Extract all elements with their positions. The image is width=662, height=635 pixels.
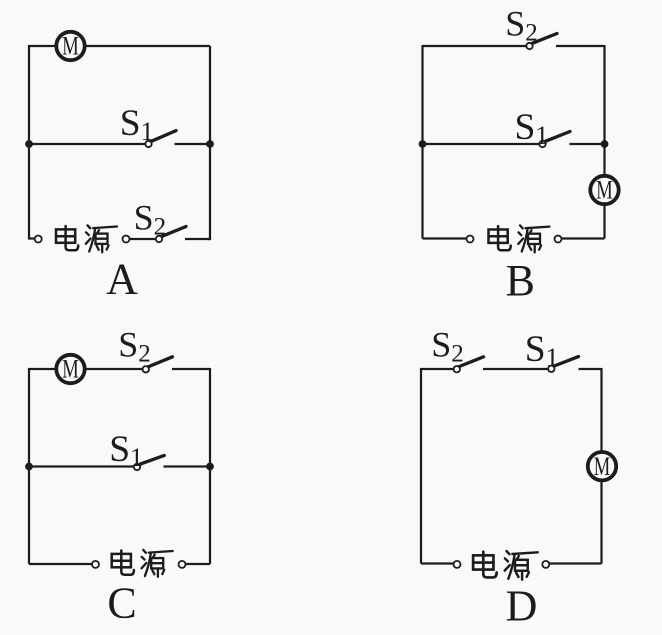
wire A bottom between battery and S2 — [130, 238, 156, 240]
wire B middle right segment — [570, 143, 605, 145]
wire A bottom right segment — [185, 238, 210, 240]
power supply 电源 (circuit D) — [473, 551, 538, 580]
wire C middle right segment — [164, 465, 211, 467]
svg-text:A: A — [106, 255, 138, 304]
switch S2 (circuit C) pivot — [143, 366, 149, 372]
wire B bottom right segment — [562, 237, 605, 239]
wire B bottom left segment — [423, 237, 467, 239]
wire B left vertical — [421, 45, 423, 239]
switch S1 (circuit D) blade — [554, 357, 578, 366]
switch S1 (circuit C) pivot — [134, 464, 140, 470]
wire B top left segment — [423, 45, 527, 47]
svg-text:B: B — [506, 256, 535, 305]
wire C bottom left segment — [29, 563, 92, 565]
node A middle-left junction — [25, 140, 33, 148]
power supply 电源 (circuit B) — [489, 225, 550, 252]
svg-text:S1: S1 — [109, 429, 143, 472]
wire A right vertical — [207, 46, 210, 239]
svg-text:M: M — [62, 355, 79, 384]
wire C top right segment — [172, 368, 210, 370]
wire D top left segment — [421, 368, 453, 370]
battery terminal right (circuit A) — [123, 236, 130, 243]
power supply 电源 (circuit C) — [112, 550, 173, 577]
switch S2 (circuit A) blade — [162, 227, 186, 237]
wire A middle left segment — [29, 143, 145, 145]
motor M (circuit C) — [56, 355, 84, 384]
switch S2 (circuit B) pivot — [526, 43, 532, 49]
battery terminal left (circuit D) — [454, 561, 461, 568]
switch S2 (circuit D) blade — [460, 357, 484, 367]
switch S2 (circuit A) pivot — [156, 236, 162, 242]
battery terminal left (circuit C) — [92, 561, 99, 568]
switch S1 (circuit A) pivot — [145, 141, 151, 147]
svg-text:S1: S1 — [120, 103, 154, 146]
wire C top left stub — [29, 368, 56, 370]
wire B middle left segment — [423, 143, 540, 145]
wire C top middle segment — [85, 368, 142, 370]
motor M (circuit D) — [588, 452, 616, 481]
svg-text:S2: S2 — [431, 325, 464, 368]
battery terminal right (circuit C) — [179, 561, 186, 568]
switch S1 (circuit D) pivot — [548, 366, 554, 372]
switch S2 (circuit C) blade — [149, 357, 173, 367]
wire A top — [29, 45, 210, 47]
wire A left vertical — [29, 45, 35, 239]
switch S1 (circuit B) blade — [545, 132, 570, 142]
wire B top right segment — [556, 45, 605, 47]
svg-text:S1: S1 — [515, 107, 549, 150]
wire A middle right segment — [175, 143, 211, 145]
svg-text:M: M — [594, 452, 611, 481]
svg-text:S2: S2 — [505, 4, 538, 47]
switch S1 (circuit A) blade — [151, 131, 176, 142]
svg-text:C: C — [107, 579, 136, 628]
svg-text:S1: S1 — [525, 329, 559, 372]
svg-text:S2: S2 — [118, 325, 151, 368]
node B middle-left junction — [419, 140, 427, 148]
wire C middle left segment — [29, 465, 134, 467]
wire C left vertical — [28, 368, 30, 564]
wire C bottom right segment — [186, 563, 211, 565]
wire D right vertical — [600, 368, 602, 564]
node C middle-left junction — [25, 463, 33, 471]
svg-text:D: D — [506, 582, 538, 631]
svg-text:S2: S2 — [134, 198, 167, 241]
wire D left vertical — [420, 368, 422, 564]
node C middle-right junction — [206, 463, 214, 471]
node B middle-right junction — [601, 140, 609, 148]
motor M (circuit B) — [590, 176, 618, 205]
node A middle-right junction — [206, 140, 214, 148]
battery terminal left (circuit A) — [35, 236, 42, 243]
svg-text:M: M — [596, 176, 613, 205]
power supply 电源 (circuit A) — [56, 225, 117, 252]
battery terminal left (circuit B) — [467, 236, 474, 243]
wire D top right segment — [579, 368, 602, 370]
motor M (circuit A) — [56, 32, 84, 61]
battery terminal right (circuit B) — [555, 236, 562, 243]
wire D bottom left segment — [421, 562, 453, 564]
wire B right vertical — [603, 45, 605, 239]
wire D bottom right segment — [549, 562, 601, 564]
switch S2 (circuit D) pivot — [454, 366, 460, 372]
wire C right vertical — [209, 368, 211, 564]
svg-text:M: M — [62, 32, 79, 61]
switch S1 (circuit B) pivot — [539, 141, 545, 147]
battery terminal right (circuit D) — [542, 561, 549, 568]
switch S1 (circuit C) blade — [140, 455, 164, 464]
switch S2 (circuit B) blade — [532, 34, 557, 44]
wire D top middle segment — [483, 368, 548, 370]
